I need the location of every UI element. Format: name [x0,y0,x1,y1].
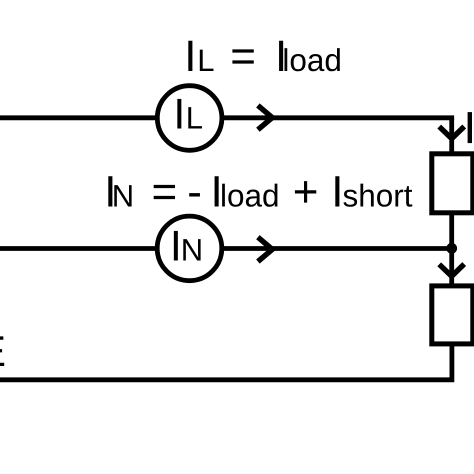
wire: top-left horizontal [0,115,158,120]
label IN inside circle [170,223,203,271]
current source IL (circle) [157,86,222,151]
svg-text:N: N [112,178,134,213]
svg-text:+: + [293,167,319,216]
svg-text:I: I [173,91,185,139]
wire: middle-left horizontal [0,246,158,251]
label I (cropped at right edge) [468,112,472,143]
arrow: current direction on top wire [258,105,272,129]
wire: R2 bottom, corner, bottom horizontal [0,344,452,380]
svg-text:load: load [220,177,280,213]
svg-text:L: L [197,43,214,78]
wire: R1 bottom to node [449,212,454,250]
svg-text:N: N [181,233,203,268]
arrow: current direction on middle wire [258,237,272,261]
svg-text:=: = [152,167,178,216]
label IN = - Iload + Ishort [104,167,413,216]
svg-text:short: short [343,177,413,213]
arrowhead: down into R1 [439,127,464,139]
svg-text:L: L [186,101,203,136]
wire: middle horizontal to node [221,246,452,251]
wire: top horizontal to right corner [221,115,454,120]
svg-text:I: I [184,32,196,81]
resistor R2 [432,286,473,344]
label IL inside circle [173,91,203,139]
wire: vertical drop to resistor R1 [449,118,454,154]
svg-text:=: = [230,32,256,81]
svg-text:E: E [0,328,6,376]
node junction dot [446,243,457,254]
svg-text:load: load [282,42,342,78]
arrowhead: down into R2 [439,264,464,276]
label IL = Iload [184,32,342,81]
resistor R1 [432,154,473,213]
svg-text:-: - [187,167,202,216]
wire: node down to resistor R2 [449,248,454,286]
current source IN (circle) [157,216,222,281]
